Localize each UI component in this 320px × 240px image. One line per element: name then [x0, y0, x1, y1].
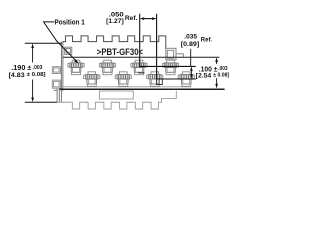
- contact 5 (top row): [131, 60, 147, 74]
- svg-text:.003: .003: [218, 66, 227, 72]
- svg-text:[4.83: [4.83: [9, 72, 25, 79]
- top castellation outline: [63, 36, 166, 48]
- svg-text:>PBT-GF30<: >PBT-GF30<: [97, 47, 143, 57]
- dimension .190 left: [25, 43, 62, 102]
- right post: [166, 48, 184, 60]
- bottom dark band: [59, 89, 224, 91]
- dimension .100 right: [216, 62, 218, 85]
- bottom profile: [57, 91, 176, 109]
- dimension .035 right middle: [190, 49, 193, 75]
- contact 2 (mid row): [84, 72, 100, 87]
- contacts: [68, 60, 194, 86]
- left edge: [54, 42, 63, 103]
- svg-text:± 0.08]: ± 0.08]: [27, 72, 46, 78]
- left post: [65, 47, 72, 54]
- contact 7 (top row): [162, 60, 178, 74]
- left tab lower: [52, 80, 60, 88]
- bottom window rect: [99, 91, 133, 99]
- contact 4 (mid row): [115, 72, 131, 87]
- svg-text:Ref.: Ref.: [125, 15, 138, 22]
- svg-text:.035: .035: [184, 33, 197, 40]
- highlighted contact edges near extension lines: [157, 79, 163, 85]
- contact 6 (mid row): [147, 72, 163, 87]
- svg-text:Ref.: Ref.: [201, 37, 213, 44]
- contact 1 (top row): [68, 60, 84, 74]
- contact 8 (mid row): [178, 72, 194, 87]
- svg-text:[2.54: [2.54: [196, 72, 212, 79]
- svg-text:[1.27]: [1.27]: [106, 18, 124, 25]
- svg-text:± 0.08]: ± 0.08]: [213, 73, 229, 79]
- left tab upper: [52, 67, 60, 74]
- lower gray line: [63, 86, 191, 88]
- svg-text:.003: .003: [33, 65, 43, 71]
- svg-text:Position 1: Position 1: [55, 19, 85, 26]
- dimension .050 top: [140, 14, 196, 79]
- face line top: [63, 56, 219, 58]
- svg-text:[0.89]: [0.89]: [181, 41, 199, 48]
- contact 3 (top row): [99, 60, 115, 74]
